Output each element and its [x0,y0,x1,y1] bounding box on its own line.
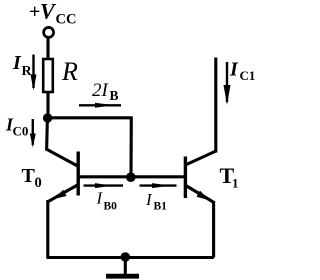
svg-text:C1: C1 [240,68,256,83]
svg-text:B: B [110,88,119,103]
svg-text:0: 0 [35,175,42,191]
svg-text:V: V [40,0,57,24]
svg-text:1: 1 [232,176,239,191]
svg-text:I: I [229,59,239,81]
svg-text:I: I [145,190,153,209]
svg-text:T: T [22,165,36,187]
svg-text:I: I [96,189,104,208]
svg-text:+: + [29,1,40,23]
svg-text:2I: 2I [92,80,110,101]
svg-text:I: I [12,52,22,74]
svg-text:B0: B0 [104,201,118,213]
svg-text:C0: C0 [13,124,29,139]
svg-text:R: R [22,64,33,79]
svg-text:B1: B1 [154,201,168,213]
svg-text:R: R [61,57,78,86]
svg-text:CC: CC [56,12,77,28]
